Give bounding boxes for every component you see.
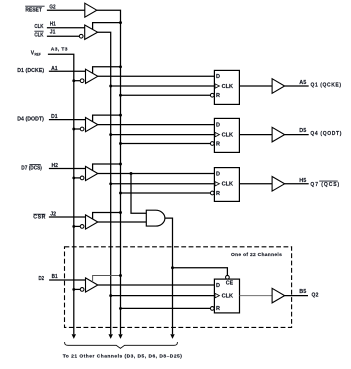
- wire VREF to receiver ch4: [74, 225, 81, 227]
- wire D input ch2: [49, 119, 86, 121]
- svg-text:CLK: CLK: [34, 32, 43, 38]
- wire VREF to receiver chB: [74, 288, 81, 290]
- bubble on VREF input chB: [80, 288, 84, 292]
- wire CLK to U4: [111, 134, 215, 136]
- arrow to other channels 2: [109, 334, 113, 339]
- svg-text:H5: H5: [299, 178, 306, 184]
- junction VREF bus ch3: [72, 176, 75, 179]
- svg-text:D: D: [216, 74, 220, 80]
- svg-text:H1: H1: [50, 21, 56, 27]
- arrow to other channels 4: [170, 334, 174, 339]
- brace under arrows: [65, 342, 178, 348]
- wire R to U3: [121, 94, 211, 96]
- svg-text:R: R: [216, 306, 220, 312]
- junction VREF bus ch4: [72, 225, 75, 228]
- wire output ch1: [285, 85, 309, 87]
- bubble on VREF input ch1: [80, 79, 84, 83]
- junction RESET bus ch2: [119, 142, 122, 145]
- junction CLK bus ch1: [109, 85, 112, 88]
- receiver ch2: [86, 118, 98, 132]
- svg-text:J1: J1: [50, 29, 56, 35]
- wire RESET input: [47, 9, 85, 11]
- wire VREF to receiver ch1: [74, 80, 81, 82]
- receiver chB: [86, 278, 98, 292]
- wire receiver enable ch1: [93, 67, 121, 74]
- wire output ch3: [285, 183, 309, 185]
- wire Q2 output: [285, 295, 308, 297]
- wire D input ch1: [49, 70, 86, 72]
- clock edge mark U6: [215, 293, 219, 297]
- svg-text:CSR: CSR: [33, 215, 45, 221]
- bubble on VREF input ch3: [80, 176, 84, 180]
- receiver ch1: [86, 69, 98, 83]
- svg-text:Q1 (QCKE): Q1 (QCKE): [311, 83, 342, 89]
- wire receiver out to D ch1: [98, 75, 215, 77]
- svg-text:D1 (DCKE): D1 (DCKE): [17, 68, 44, 74]
- bubble on VREF input ch4: [80, 225, 84, 229]
- output buffer ch2: [272, 127, 285, 142]
- wire CSR out to AND gate: [98, 221, 147, 223]
- bubble R input U6: [210, 307, 214, 311]
- junction RESET bus / enable ch4: [119, 211, 122, 214]
- clock edge mark U5: [215, 182, 219, 186]
- wire VREF to receiver ch3: [74, 177, 81, 179]
- svg-text:D2: D2: [39, 276, 45, 282]
- wire receiver enable ch3: [93, 164, 121, 171]
- svg-text:R: R: [216, 141, 220, 147]
- svg-text:B5: B5: [299, 289, 306, 295]
- svg-text:R: R: [216, 93, 220, 99]
- output buffer ch3: [272, 177, 285, 192]
- svg-text:REF: REF: [35, 52, 42, 56]
- wire R to U4: [121, 143, 211, 145]
- junction RESET bus ch1: [119, 94, 122, 97]
- junction CLK bus ch3: [109, 182, 112, 185]
- receiver ch4: [86, 215, 98, 229]
- wire receiver enable ch4: [93, 213, 121, 220]
- svg-text:One of 22 Channels: One of 22 Channels: [231, 252, 282, 258]
- svg-text:B1: B1: [52, 274, 58, 280]
- output buffer chB: [272, 288, 285, 303]
- junction RESET bus / enable ch3: [119, 163, 122, 166]
- wire receiver out to D ch2: [98, 124, 215, 126]
- junction RESET bus / enable chB: [119, 274, 122, 277]
- svg-text:A5: A5: [299, 80, 306, 86]
- svg-text:Q4 (QODT): Q4 (QODT): [310, 131, 341, 137]
- wire receiver enable chB: [93, 276, 121, 283]
- wire CLK to U3: [111, 85, 215, 87]
- junction RESET bus ch3: [119, 192, 122, 195]
- svg-text:D4 (DODT): D4 (DODT): [17, 117, 44, 123]
- svg-text:CLK: CLK: [222, 182, 234, 188]
- wire RESET bus: [97, 10, 121, 334]
- bubble on CLK-bar input: [79, 34, 83, 38]
- svg-text:CLK: CLK: [222, 84, 234, 90]
- wire DCS to AND gate: [131, 174, 146, 214]
- output buffer ch1: [272, 79, 285, 94]
- flip-flop U3: [214, 70, 239, 104]
- wire Q out U3: [239, 183, 272, 185]
- bubble R input U3: [210, 93, 214, 97]
- buffer U1 RESET: [85, 3, 97, 17]
- svg-text:D5: D5: [299, 128, 306, 134]
- junction RESET bus / enable ch1: [119, 65, 122, 68]
- receiver U2 CLK differential: [85, 25, 98, 39]
- bubble R input U4: [210, 142, 214, 146]
- AND gate G1: [146, 210, 165, 226]
- junction AND bus / CE: [171, 266, 174, 269]
- svg-text:RESET: RESET: [25, 7, 42, 13]
- wire receiver enable ch2: [93, 115, 121, 122]
- wire U6 Q out: [240, 295, 273, 297]
- junction RESET bus / enable ch2: [119, 114, 122, 117]
- wire D input ch3: [49, 168, 86, 170]
- wire CE from AND bus: [173, 268, 228, 276]
- wire D2 input: [49, 279, 85, 281]
- svg-text:D: D: [216, 283, 220, 289]
- svg-text:D: D: [216, 122, 220, 128]
- wire receiver out to D ch3: [98, 173, 215, 175]
- junction DCS out to AND: [130, 172, 133, 175]
- svg-text:To 21 Other Channels (D3, D5,: To 21 Other Channels (D3, D5, D6, D8–D25…: [63, 353, 183, 359]
- svg-text:CLK: CLK: [222, 293, 234, 299]
- arrow to other channels 1: [72, 334, 76, 339]
- svg-text:D: D: [216, 171, 220, 177]
- wire D input ch4: [49, 216, 86, 218]
- wire VREF bus: [48, 54, 74, 334]
- bubble on VREF input ch2: [80, 127, 84, 131]
- flip-flop U5: [214, 168, 239, 202]
- wire R to U6: [121, 307, 211, 309]
- wire CLK-bar input: [47, 35, 80, 37]
- wire U2 enable from RESET bus: [93, 23, 121, 30]
- bubble R input U5: [210, 191, 214, 195]
- junction RESET bus chB: [119, 307, 122, 310]
- wire CLK to U6: [111, 295, 215, 297]
- junction VREF bus ch1: [72, 79, 75, 82]
- wire Q out U1: [239, 85, 272, 87]
- dashed box: One of 22 Channels: [65, 247, 292, 328]
- svg-text:A3, T3: A3, T3: [51, 46, 68, 52]
- wire R to U5: [121, 192, 211, 194]
- junction VREF bus ch2: [72, 128, 75, 131]
- wire VREF to receiver ch2: [74, 128, 81, 130]
- flip-flop U4: [214, 118, 239, 152]
- overline on QCS: [319, 180, 338, 182]
- clock edge mark U3: [215, 84, 219, 88]
- wire output ch2: [285, 134, 309, 136]
- svg-text:CLK: CLK: [222, 132, 234, 138]
- wire CLK bus: [98, 32, 111, 334]
- svg-text:Q7 (QCS): Q7 (QCS): [310, 182, 339, 188]
- junction CLK bus chB: [109, 294, 112, 297]
- flip-flop U6: [214, 279, 239, 313]
- svg-text:R: R: [216, 191, 220, 197]
- wire CLK input: [47, 27, 85, 29]
- svg-text:CLK: CLK: [34, 24, 43, 30]
- bubble CE input U6: [226, 275, 230, 279]
- svg-text:Q2: Q2: [312, 293, 319, 299]
- wire AND output bus: [165, 218, 173, 334]
- arrow to other channels 3: [118, 334, 122, 339]
- junction VREF bus chB: [72, 288, 75, 291]
- wire Q out U2: [239, 134, 272, 136]
- clock edge mark U4: [215, 132, 219, 136]
- receiver ch3: [86, 166, 98, 180]
- junction CLK bus ch2: [109, 133, 112, 136]
- wire receiver out to D chB: [98, 284, 215, 286]
- junction RESET bus / U2 enable: [119, 21, 122, 24]
- svg-text:D7 (DCS): D7 (DCS): [21, 166, 42, 172]
- svg-text:CE: CE: [226, 280, 234, 286]
- wire CLK to U5: [111, 183, 215, 185]
